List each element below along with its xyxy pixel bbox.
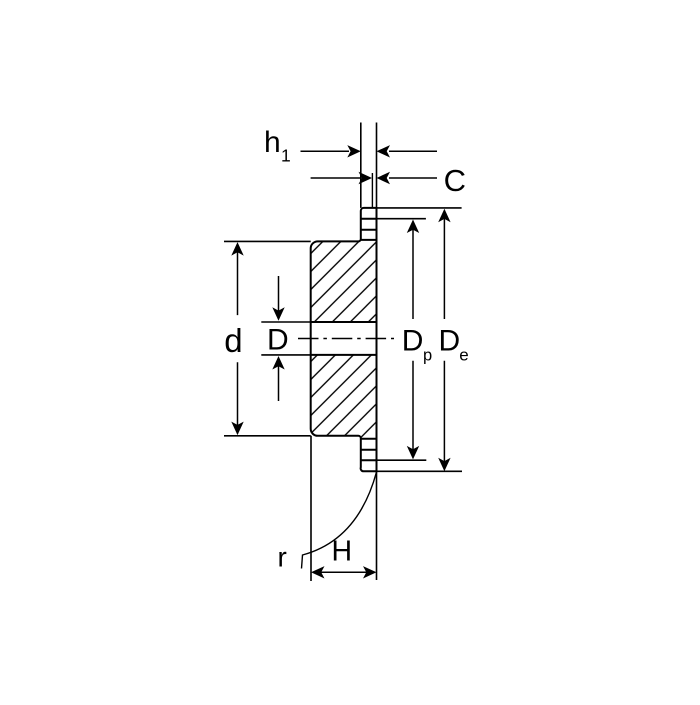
svg-text:D: D xyxy=(402,325,424,358)
svg-text:e: e xyxy=(459,345,468,364)
svg-text:r: r xyxy=(278,542,287,573)
svg-text:1: 1 xyxy=(281,146,291,166)
svg-text:C: C xyxy=(444,163,466,198)
svg-text:h: h xyxy=(264,126,281,159)
svg-text:H: H xyxy=(332,536,353,568)
svg-text:D: D xyxy=(267,324,289,357)
svg-text:d: d xyxy=(224,322,242,359)
svg-text:p: p xyxy=(423,347,432,365)
svg-text:D: D xyxy=(439,325,461,358)
